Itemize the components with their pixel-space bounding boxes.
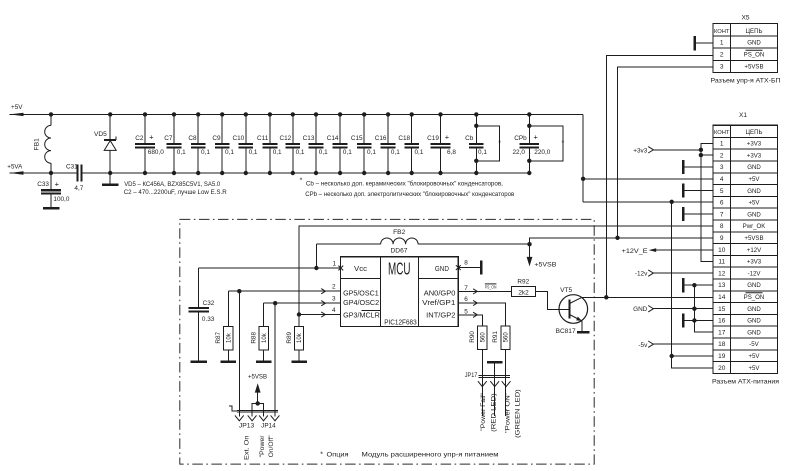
svg-text:R87: R87 (215, 331, 222, 343)
capacitor C10 (232, 112, 257, 175)
resistor R91 (458, 300, 510, 416)
svg-text:CPb – несколько доп. электроли: CPb – несколько доп. электролитических "… (305, 190, 515, 198)
svg-text:C2 – 470...2200uF, лучше Low E: C2 – 470...2200uF, лучше Low E.S.R (124, 189, 227, 196)
svg-text:JP13: JP13 (239, 423, 255, 430)
svg-text:КОНТ: КОНТ (714, 130, 730, 136)
capacitor C14 (327, 112, 352, 175)
svg-text:GND: GND (747, 318, 761, 325)
svg-text:Опция: Опция (327, 451, 350, 458)
svg-text:(GREEN LED): (GREEN LED) (515, 389, 522, 438)
svg-text:2: 2 (720, 52, 724, 59)
svg-text:0.33: 0.33 (202, 316, 215, 323)
wire X5 pin 2 PS_ON bus (606, 55, 713, 297)
svg-text:Разъем АТХ-питания: Разъем АТХ-питания (712, 378, 780, 385)
svg-text:GND: GND (747, 282, 761, 289)
ferrite bead FB1 (34, 112, 54, 175)
wire +5V rail drop to X1 (582, 114, 584, 201)
wire +5V to X1 pin 4 (583, 178, 713, 180)
ground at X1 pin 5 (683, 183, 713, 197)
capacitor C15 (351, 112, 376, 175)
svg-text:GND: GND (747, 188, 761, 195)
svg-text:6: 6 (464, 296, 468, 303)
svg-text:AN0/GP0: AN0/GP0 (424, 290, 456, 297)
wire GND bottom rail (110, 172, 529, 174)
svg-text:FB2: FB2 (393, 229, 405, 236)
svg-text:+5VSB: +5VSB (744, 235, 763, 242)
net flag GND (633, 306, 713, 314)
svg-text:-12V: -12V (748, 270, 762, 277)
ferrite bead FB2 (316, 229, 529, 254)
net flag -5v (638, 341, 712, 349)
capacitor C33 (37, 173, 70, 207)
svg-text:*: * (498, 140, 501, 147)
wire +5V top rail (10, 113, 584, 115)
svg-text:C18: C18 (398, 135, 410, 142)
svg-text:+: + (149, 133, 154, 142)
svg-text:+5VSB: +5VSB (248, 374, 267, 381)
svg-text:13: 13 (718, 282, 726, 289)
module border (option block) (180, 219, 594, 464)
svg-text:GND: GND (747, 329, 761, 336)
svg-text:C15: C15 (351, 135, 363, 142)
net flag +5VSB at JP14 (248, 374, 267, 406)
svg-text:0,1: 0,1 (296, 149, 305, 156)
svg-text:3: 3 (332, 296, 336, 303)
capacitor C9 (212, 112, 234, 175)
svg-text:+5V: +5V (11, 104, 23, 111)
capacitor C8 (188, 112, 210, 175)
MCU pin 4 GP3 (297, 307, 341, 317)
svg-text:C10: C10 (232, 135, 244, 142)
svg-text:C33: C33 (37, 181, 49, 188)
svg-text:0,1: 0,1 (201, 149, 210, 156)
svg-text:Cb – несколько доп. керамическ: Cb – несколько доп. керамических "блокир… (306, 180, 503, 188)
svg-text:6: 6 (720, 200, 724, 207)
svg-text:+3v3: +3v3 (633, 147, 647, 154)
svg-text:CPb: CPb (514, 135, 527, 142)
svg-text:0,1: 0,1 (249, 149, 258, 156)
MCU pin 7 PS_ON wire (458, 284, 511, 294)
svg-text:INT/GP2: INT/GP2 (426, 312, 455, 319)
svg-text:GP4/OSC2: GP4/OSC2 (343, 300, 379, 307)
capacitor C2 (135, 112, 164, 175)
svg-text:PS_ON: PS_ON (744, 52, 765, 59)
ground at X1 pin 3 (683, 160, 713, 174)
svg-text:BC817: BC817 (556, 328, 576, 335)
net flag +5V (10, 104, 24, 116)
svg-text:"Power: "Power (259, 435, 266, 457)
svg-text:FB1: FB1 (34, 138, 41, 150)
svg-text:X5: X5 (741, 14, 749, 21)
svg-text:5: 5 (464, 309, 468, 316)
svg-text:C19: C19 (427, 135, 439, 142)
svg-text:GP5/OSC1: GP5/OSC1 (343, 290, 379, 297)
svg-text:X1: X1 (739, 112, 747, 119)
wire +5V to X1 pin 6 (583, 201, 713, 203)
svg-text:C8: C8 (188, 135, 197, 142)
MCU pin 8 GND (456, 259, 480, 270)
svg-text:10k: 10k (262, 332, 268, 343)
jumper JP13 (235, 291, 264, 429)
svg-text:MCU: MCU (388, 258, 411, 278)
svg-text:2: 2 (720, 152, 724, 159)
svg-text:JP14: JP14 (261, 423, 276, 430)
svg-text:560: 560 (504, 332, 510, 343)
svg-text:560: 560 (481, 332, 487, 343)
svg-text:DD67: DD67 (391, 247, 408, 254)
svg-text:+5V: +5V (748, 176, 760, 183)
capacitor C11 (257, 112, 282, 175)
net flag -12v (635, 270, 713, 278)
svg-text:+5V: +5V (748, 353, 760, 360)
svg-text:-5v: -5v (638, 342, 648, 349)
svg-text:Pwr_OK: Pwr_OK (743, 223, 766, 230)
net flag +3v3 (633, 147, 701, 155)
net flag +5VA (7, 164, 23, 175)
svg-text:VT5: VT5 (560, 287, 572, 294)
capacitor C32 (189, 268, 215, 361)
svg-text:GND: GND (747, 164, 761, 171)
svg-text:+5VSB: +5VSB (534, 261, 556, 268)
svg-text:C12: C12 (279, 135, 291, 142)
svg-text:Vcc: Vcc (354, 266, 368, 273)
net flag +12V_E (622, 248, 713, 255)
svg-text:2k2: 2k2 (518, 290, 529, 297)
ground under C33 (43, 207, 60, 209)
svg-text:C16: C16 (375, 135, 387, 142)
svg-text:ЦЕПЬ: ЦЕПЬ (746, 129, 763, 136)
svg-text:Vref/GP1: Vref/GP1 (422, 300, 455, 307)
label Power On-Off (259, 435, 275, 457)
wire R92 to VT5 base (536, 291, 570, 309)
svg-text:"Power ON": "Power ON" (504, 393, 511, 434)
svg-text:0,1: 0,1 (177, 149, 186, 156)
label Power ON GREEN LED (504, 389, 521, 438)
svg-text:+5V: +5V (748, 365, 760, 372)
svg-text:-5V: -5V (749, 341, 759, 348)
svg-text:+3V3: +3V3 (747, 152, 762, 159)
svg-text:14: 14 (718, 294, 726, 301)
svg-text:3: 3 (720, 164, 724, 171)
wire +3V3 bus X1 pins 1,2,11 (699, 143, 713, 261)
svg-text:.: . (529, 149, 531, 156)
svg-text:+: + (534, 133, 539, 142)
svg-text:C2: C2 (135, 135, 144, 142)
capacitor C18 (398, 112, 423, 175)
svg-text:GP3/MCLR: GP3/MCLR (343, 312, 380, 319)
svg-text:C31: C31 (66, 164, 78, 171)
svg-text:+12V_E: +12V_E (622, 248, 648, 255)
svg-text:680,0: 680,0 (148, 149, 164, 156)
resistor R88 (251, 303, 269, 360)
svg-text:R90: R90 (469, 331, 476, 343)
ground at VT5 emitter (577, 321, 590, 332)
svg-text:19: 19 (718, 353, 726, 360)
capacitor CPb (512, 112, 550, 175)
svg-text:220,0: 220,0 (534, 149, 550, 156)
svg-text:PS_ON: PS_ON (744, 294, 765, 301)
svg-text:+12V: +12V (747, 247, 762, 254)
svg-text:5: 5 (720, 188, 724, 195)
repeat bracket for Cb (474, 124, 501, 163)
wire Pwr_OK from MCU pin 4 to X1 pin 8 (299, 226, 713, 314)
svg-text:Ext. On: Ext. On (243, 435, 250, 460)
svg-text:GND: GND (435, 266, 449, 273)
connector X1 table (712, 112, 780, 385)
footnote Cb (300, 178, 504, 188)
svg-text:C13: C13 (303, 135, 315, 142)
capacitor C31 (66, 164, 84, 192)
resistor R89 (286, 315, 304, 361)
svg-text:(RED LED): (RED LED) (490, 393, 497, 432)
capacitor C7 (164, 112, 186, 175)
svg-text:6,8: 6,8 (447, 149, 456, 156)
svg-text:+3V3: +3V3 (747, 141, 762, 148)
svg-text:0,1: 0,1 (478, 149, 487, 156)
ground under R87 (221, 361, 237, 363)
connector JP17 (465, 372, 511, 387)
capacitor C19 (427, 112, 456, 175)
svg-text:*: * (562, 140, 565, 147)
svg-text:GND: GND (747, 211, 761, 218)
svg-text:PS_ON: PS_ON (485, 284, 497, 290)
wire Vcc net (198, 266, 340, 270)
svg-text:15: 15 (718, 306, 726, 313)
svg-text:R88: R88 (251, 331, 258, 343)
svg-text:3: 3 (720, 64, 724, 71)
svg-text:+: + (445, 133, 450, 142)
resistor R90 (458, 312, 487, 416)
svg-text:0,1: 0,1 (319, 149, 328, 156)
MCU U1 PIC12F683 box (341, 257, 459, 327)
ground at MCU pin 8 (480, 261, 482, 275)
svg-text:1: 1 (332, 261, 336, 268)
connector X5 table (711, 14, 781, 84)
svg-text:11: 11 (718, 259, 725, 266)
svg-text:*: * (300, 178, 303, 185)
svg-text:100,0: 100,0 (53, 196, 69, 203)
svg-text:Cb: Cb (465, 135, 474, 142)
svg-text:10k: 10k (226, 332, 232, 343)
svg-text:R92: R92 (517, 279, 529, 286)
wire FB2 to MCU Vcc (315, 244, 317, 268)
svg-text:+5V: +5V (748, 200, 760, 207)
svg-text:JP17: JP17 (465, 372, 478, 379)
svg-text:C14: C14 (327, 135, 339, 142)
svg-text:17: 17 (718, 329, 726, 336)
svg-text:12: 12 (718, 270, 726, 277)
capacitor C16 (375, 112, 400, 175)
wire C31 to GND rail (82, 172, 111, 174)
svg-text:+3V3: +3V3 (747, 259, 762, 266)
ground under R89 (291, 361, 307, 363)
svg-text:0,1: 0,1 (343, 149, 352, 156)
capacitor Cb (465, 112, 487, 175)
zener diode VD5 (94, 112, 116, 175)
resistor R92 (512, 279, 536, 297)
wire +5VA rail to C31 (10, 172, 78, 174)
svg-text:+5VSB: +5VSB (744, 64, 763, 71)
MCU pin 3 GP4 (264, 296, 341, 306)
ground under VD5 (109, 173, 111, 183)
svg-text:C11: C11 (257, 135, 269, 142)
svg-text:0,1: 0,1 (391, 149, 400, 156)
svg-text:0,1: 0,1 (273, 149, 282, 156)
capacitor C12 (279, 112, 304, 175)
wire +5V bus to X1 pins 19,20 (670, 200, 713, 368)
svg-text:GND: GND (747, 306, 761, 313)
svg-text:1: 1 (720, 141, 724, 148)
svg-text:8: 8 (464, 259, 468, 266)
svg-text:GND: GND (747, 39, 761, 46)
wire PS_ON collector to X1 pin 14 (582, 295, 713, 299)
svg-text:0,1: 0,1 (367, 149, 376, 156)
svg-text:R91: R91 (492, 331, 499, 343)
svg-text:-12v: -12v (635, 271, 648, 278)
svg-text:C32: C32 (203, 300, 215, 307)
svg-text:On/Off": On/Off" (268, 435, 275, 457)
svg-text:*: * (320, 451, 323, 458)
svg-text:ЦЕПЬ: ЦЕПЬ (746, 28, 763, 35)
ground at X5 pin 1 (695, 36, 713, 51)
svg-text:+: + (55, 179, 60, 188)
svg-text:КОНТ: КОНТ (714, 29, 730, 35)
svg-text:9: 9 (720, 235, 724, 242)
svg-text:0,1: 0,1 (225, 149, 234, 156)
svg-text:C7: C7 (164, 135, 173, 142)
svg-text:4: 4 (720, 176, 724, 183)
svg-text:18: 18 (718, 341, 726, 348)
svg-text:GND: GND (633, 306, 648, 313)
ground at X1 pin 13 and GND bus pins 13,15,16,17 (683, 278, 713, 332)
svg-text:10k: 10k (297, 332, 303, 343)
ground at X1 pin 16 (682, 313, 684, 327)
ground at X1 pin 7 (683, 207, 713, 221)
svg-text:10: 10 (718, 247, 726, 254)
svg-text:VD5 – КС456А, BZX85C5V1, SA5.0: VD5 – КС456А, BZX85C5V1, SA5.0 (124, 181, 220, 188)
svg-text:20: 20 (718, 365, 726, 372)
svg-text:0,1: 0,1 (415, 149, 424, 156)
MCU pin 2 GP5 (228, 284, 340, 294)
MCU pin 1 Vcc (332, 261, 343, 271)
svg-text:Разъем упр-я АТХ-БП: Разъем упр-я АТХ-БП (711, 77, 781, 84)
svg-text:4,7: 4,7 (74, 185, 83, 192)
svg-text:2: 2 (332, 284, 336, 291)
ground under C32 (191, 361, 208, 363)
svg-text:VD5: VD5 (94, 131, 107, 138)
svg-text:8: 8 (720, 223, 724, 230)
svg-text:R89: R89 (286, 331, 293, 343)
svg-text:Модуль расширенного упр-я пита: Модуль расширенного упр-я питанием (362, 451, 499, 458)
ground under R88 (256, 361, 272, 363)
ground at JP17 middle pin (487, 362, 503, 416)
svg-text:7: 7 (720, 211, 724, 218)
svg-text:1: 1 (720, 39, 724, 46)
note option module (320, 451, 498, 458)
jumper JP14 (259, 303, 279, 429)
svg-text:22,0: 22,0 (512, 149, 525, 156)
svg-text:4: 4 (332, 307, 336, 314)
svg-text:PIC12F683: PIC12F683 (384, 320, 417, 327)
wire +5VSB to X1 pin 9 (530, 238, 713, 244)
label Power Fail RED LED (480, 393, 497, 432)
svg-text:C9: C9 (212, 135, 221, 142)
wire X5 pin 3 +5VSB bus (618, 67, 713, 238)
net flag +5VSB at FB2 (527, 242, 557, 268)
capacitor C13 (303, 112, 328, 175)
transistor VT5 BC817 (556, 287, 588, 335)
svg-text:"Power Fail": "Power Fail" (480, 393, 487, 431)
svg-text:+5VA: +5VA (7, 164, 22, 171)
repeat bracket for CPb (527, 124, 564, 163)
svg-text:16: 16 (718, 318, 726, 325)
JP13 JP14 header strip (229, 406, 278, 412)
resistor R87 (215, 291, 233, 360)
